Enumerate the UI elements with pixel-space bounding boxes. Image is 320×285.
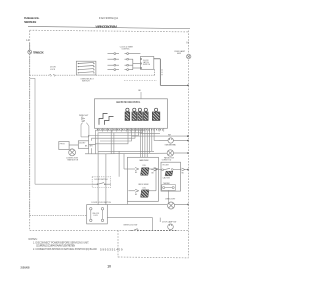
svg-text:DLB RY: DLB RY xyxy=(79,143,86,145)
svg-text:LOCK: LOCK xyxy=(50,69,56,71)
svg-text:2. CONNECTORS SHOWN IN NATURAL: 2. CONNECTORS SHOWN IN NATURAL POSITION … xyxy=(33,248,97,251)
svg-text:WH: WH xyxy=(90,146,94,148)
svg-text:OVEN LIGHT: OVEN LIGHT xyxy=(165,198,175,200)
svg-text:L1: L1 xyxy=(26,38,29,42)
svg-text:BK: BK xyxy=(135,172,138,174)
svg-text:COIL: COIL xyxy=(142,188,146,190)
svg-text:SWITCH: SWITCH xyxy=(82,81,90,83)
svg-text:OVEN VENT FAN: OVEN VENT FAN xyxy=(165,143,177,146)
svg-text:RD: RD xyxy=(182,173,185,175)
svg-text:BK: BK xyxy=(152,173,155,175)
svg-text:1. DISCONNECT POWER BEFORE SER: 1. DISCONNECT POWER BEFORE SERVICING UNI… xyxy=(33,243,89,245)
svg-text:SWITCH: SWITCH xyxy=(143,64,151,66)
svg-text:N: N xyxy=(187,41,189,45)
svg-text:OVEN TOD: OVEN TOD xyxy=(162,159,172,161)
svg-text:CAUTION: CAUTION xyxy=(163,176,171,179)
svg-text:10: 10 xyxy=(107,264,111,268)
svg-text:BK: BK xyxy=(135,194,138,196)
svg-text:BK: BK xyxy=(138,90,141,92)
svg-text:LOCK: LOCK xyxy=(94,215,99,217)
svg-text:BAKE 2585W: BAKE 2585W xyxy=(140,159,149,162)
svg-text:PF RY: PF RY xyxy=(60,143,66,145)
svg-text:NOTES:: NOTES: xyxy=(29,238,38,241)
svg-text:TERM. BLOCK: TERM. BLOCK xyxy=(33,51,44,55)
svg-text:ELECTRONIC OVEN CONTROL: ELECTRONIC OVEN CONTROL xyxy=(116,101,141,104)
svg-text:5995351409: 5995351409 xyxy=(100,247,123,251)
svg-text:COUPER LE COURANT AVANT L'ENTR: COUPER LE COURANT AVANT L'ENTRETIEN xyxy=(36,245,75,248)
svg-text:BROIL 3410W: BROIL 3410W xyxy=(139,184,149,186)
svg-text:UNLOCK: UNLOCK xyxy=(93,213,101,215)
svg-text:BK: BK xyxy=(85,146,88,148)
svg-text:HI LIMIT: HI LIMIT xyxy=(163,165,169,167)
svg-text:DOOR LOCK SWITCH: DOOR LOCK SWITCH xyxy=(92,202,112,204)
svg-text:COIL: COIL xyxy=(142,165,146,167)
svg-text:DOOR LAMP SW: DOOR LAMP SW xyxy=(162,221,176,224)
svg-text:THERMO: THERMO xyxy=(163,183,171,185)
svg-text:FGF368GQA: FGF368GQA xyxy=(99,16,118,20)
svg-text:40W: 40W xyxy=(177,53,181,55)
svg-text:DOOR SWITCH: DOOR SWITCH xyxy=(95,179,109,181)
svg-text:FAN MOTOR: FAN MOTOR xyxy=(68,159,79,162)
svg-text:CONTROL: CONTROL xyxy=(122,48,130,50)
svg-text:2/26/08: 2/26/08 xyxy=(21,265,31,269)
svg-text:5995351409: 5995351409 xyxy=(24,20,37,24)
svg-text:INTERLOCK SW: INTERLOCK SW xyxy=(124,225,138,227)
